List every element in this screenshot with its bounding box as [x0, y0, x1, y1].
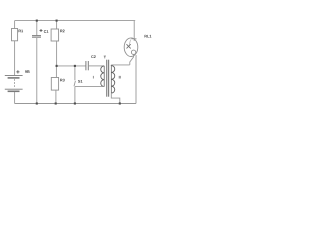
- node rail R3: [55, 102, 57, 104]
- transformer T winding I: [101, 66, 104, 87]
- lamp bottom circle: [131, 50, 135, 54]
- transformer core: [106, 60, 108, 97]
- transformer T winding II: [111, 65, 114, 93]
- lamp plus bar: [131, 38, 136, 40]
- node top C1: [36, 20, 38, 22]
- wire R3 bottom: [55, 90, 57, 103]
- wire bottom rail: [15, 103, 136, 105]
- wire R1 bottom to battery: [14, 41, 16, 75]
- wire lamp top drop: [133, 21, 135, 41]
- label C1: [44, 30, 49, 33]
- node rail winding II: [119, 102, 121, 104]
- label T: [104, 56, 106, 59]
- resistor R3: [51, 78, 58, 91]
- wire R2 bottom: [56, 41, 58, 66]
- node rail S1: [74, 102, 76, 104]
- wire S1 upper: [74, 66, 76, 80]
- switch S1 blade: [74, 81, 75, 86]
- resistor R2: [51, 29, 59, 41]
- label C2: [91, 55, 96, 58]
- wire winding II bottom jog: [111, 93, 120, 103]
- junction dots: [36, 20, 121, 105]
- wire R3 top stub: [55, 66, 57, 78]
- capacitor C1 plus sign: [16, 29, 42, 74]
- wire S1 lower: [74, 87, 76, 104]
- node rail C1: [36, 102, 38, 104]
- wire R2 branch top: [56, 21, 58, 29]
- battery B1 9V: [5, 76, 23, 92]
- lamp internal electrode line: [129, 40, 130, 45]
- node top R2: [56, 20, 58, 22]
- capacitor C2: [85, 61, 87, 70]
- label R3: [60, 79, 64, 82]
- wire winding I bottom horizontal: [75, 86, 104, 88]
- wire battery bottom to rail: [14, 92, 16, 104]
- label R2: [60, 30, 64, 33]
- label S1: [78, 80, 82, 83]
- label II: [119, 76, 121, 79]
- wire C1 bottom: [36, 38, 38, 104]
- node mid S1: [74, 65, 76, 67]
- wire mid horizontal: [57, 65, 86, 67]
- resistor R1: [12, 29, 18, 41]
- wire C2 to transformer: [89, 65, 104, 67]
- node mid R2/R3: [56, 65, 58, 67]
- lamp RL1 ellipse: [124, 38, 138, 57]
- label R1: [19, 30, 24, 33]
- label 9B: [25, 70, 30, 73]
- wire top rail: [15, 20, 136, 22]
- wire node A horizontal: [111, 64, 129, 66]
- wire C1 branch upper: [36, 21, 38, 36]
- wire lamp to right rail: [135, 55, 137, 103]
- capacitor C1: [32, 35, 41, 37]
- wire left rail upper: [14, 21, 16, 29]
- wire lamp exit to node A: [130, 55, 134, 65]
- label RL1: [145, 35, 152, 38]
- lamp cross: [127, 44, 131, 48]
- label I: [92, 76, 95, 79]
- battery plus sign: [16, 70, 19, 73]
